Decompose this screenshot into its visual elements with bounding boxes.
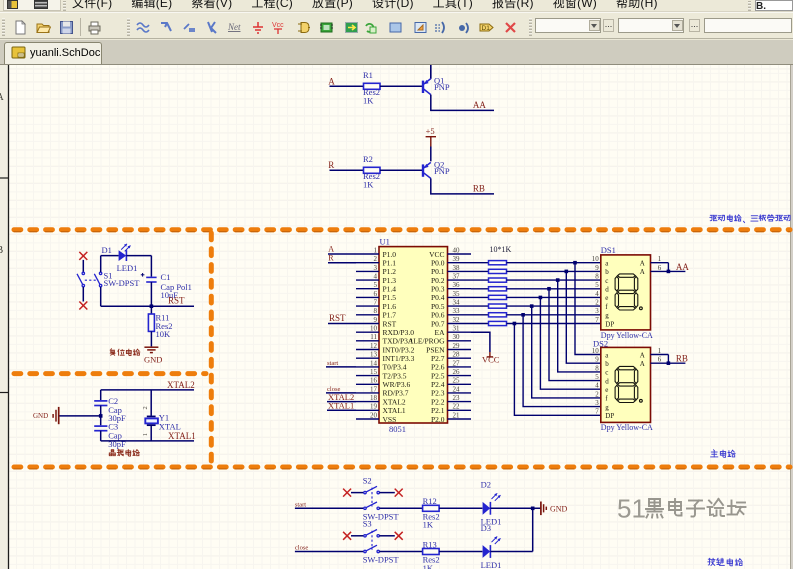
svg-text:1K: 1K	[423, 563, 434, 569]
LED D3	[483, 537, 501, 558]
svg-text:RST: RST	[168, 296, 185, 306]
svg-text:close: close	[295, 545, 308, 552]
svg-text:e: e	[605, 386, 608, 394]
toolbar icon: net label	[227, 20, 242, 35]
svg-text:P2.0: P2.0	[431, 415, 445, 424]
svg-text:1: 1	[658, 347, 662, 355]
svg-text:XTAL2: XTAL2	[167, 380, 195, 390]
svg-text:R1: R1	[363, 70, 373, 80]
wire resistor 2 to DS1 pin	[507, 270, 601, 272]
wire C1 to RST net	[150, 282, 152, 306]
no-ERC marker below S1	[79, 302, 87, 310]
svg-text:P1.5: P1.5	[383, 293, 397, 302]
wire segment line 4 down to DS2	[549, 289, 601, 381]
svg-text:1: 1	[658, 255, 662, 263]
wire down to C1	[150, 256, 152, 277]
svg-text:A: A	[328, 245, 334, 254]
pin 9 of U1 (RST)	[356, 316, 397, 328]
sheet border line	[8, 65, 10, 569]
pin 28 of U1 (P2.7)	[431, 351, 471, 363]
toolbar combo box 2	[618, 18, 684, 33]
transistor Q1 (PNP)	[423, 79, 431, 95]
pin 33 of U1 (P0.6)	[431, 307, 471, 319]
annotation text: main circuit	[711, 450, 718, 457]
no-ERC marker left of S3	[343, 532, 351, 540]
svg-text:17: 17	[370, 385, 378, 393]
svg-text:A: A	[640, 360, 645, 368]
svg-text:11: 11	[370, 333, 377, 341]
wire resistor 7 to DS1 pin	[507, 314, 601, 316]
svg-text:16: 16	[370, 377, 378, 385]
pin 13 of U1 (INT1/P3.3)	[356, 351, 415, 363]
wire C2 to C3	[100, 406, 102, 426]
svg-text:35: 35	[453, 290, 461, 298]
wire U1 P0.4 to network resistor	[471, 296, 489, 298]
crystal Y1	[145, 416, 158, 425]
svg-text:LED1: LED1	[117, 263, 138, 273]
svg-text:g: g	[605, 403, 609, 411]
pin 24 of U1 (P2.3)	[431, 385, 471, 397]
junction segment line 7	[521, 313, 525, 317]
wire XTAL2 to Y1 pin 2	[150, 390, 152, 416]
capacitor C2	[94, 401, 107, 406]
svg-text:RD/P3.7: RD/P3.7	[383, 389, 409, 398]
pin 16 of U1 (WR/P3.6)	[356, 377, 410, 389]
wire S2 to R12	[379, 507, 422, 509]
svg-text:P2.7: P2.7	[431, 354, 445, 363]
svg-text:6: 6	[658, 264, 662, 272]
wire resistor 4 to DS1 pin	[507, 288, 601, 290]
svg-text:34: 34	[453, 299, 461, 307]
pin 38 of U1 (P0.1)	[431, 264, 471, 276]
wire U1 P0.1 to network resistor	[471, 270, 489, 272]
svg-text:ALE/PROG: ALE/PROG	[408, 337, 445, 346]
svg-text:PNP: PNP	[434, 166, 450, 176]
pin 12 of U1 (INT0/P3.2)	[356, 342, 415, 354]
svg-text:19: 19	[370, 403, 378, 411]
svg-text:23: 23	[453, 394, 461, 402]
wire +5 to Q2 emitter	[430, 147, 432, 162]
svg-text:29: 29	[453, 342, 461, 350]
wire resistor 5 to DS1 pin	[507, 296, 601, 298]
toolbar icon: no-ERC cross	[503, 20, 518, 35]
svg-text:4: 4	[595, 290, 599, 298]
svg-text:DP: DP	[605, 320, 614, 328]
svg-text:A: A	[640, 351, 645, 359]
toolbar button ... 1	[603, 19, 614, 32]
svg-text:10: 10	[592, 347, 600, 355]
toolbar icon: sheet entry 2	[413, 20, 428, 35]
junction C2 / C3 / GND	[99, 414, 103, 418]
toolbar icon: open	[36, 20, 51, 35]
svg-text:D2: D2	[481, 480, 491, 490]
wire segment line 1 down to DS2	[575, 263, 601, 355]
wire net XTAL1 to pin 19	[327, 409, 356, 411]
svg-text:P2.3: P2.3	[431, 389, 445, 398]
pin 11 of U1 (TXD/P3.1)	[356, 333, 414, 345]
power port +5	[426, 137, 436, 147]
wire net XTAL2 to pin 18	[327, 401, 356, 403]
svg-text:1K: 1K	[423, 520, 434, 530]
DS1 digit graphic	[615, 274, 642, 310]
wire U1 P0.2 to network resistor	[471, 279, 489, 281]
svg-text:28: 28	[453, 351, 461, 359]
sheet zone tick 2	[0, 392, 9, 394]
svg-text:Dpy Yellow-CA: Dpy Yellow-CA	[601, 331, 653, 340]
toolbar text box 3	[704, 18, 792, 33]
junction segment line 1	[573, 261, 577, 265]
pin 27 of U1 (P2.6)	[431, 359, 471, 371]
svg-text:GND: GND	[550, 505, 568, 514]
pin 4 of U1 (P1.3)	[356, 273, 396, 285]
svg-text:20: 20	[370, 411, 378, 419]
svg-text:12: 12	[370, 342, 378, 350]
svg-text:9: 9	[595, 356, 599, 364]
wire net close to pin 17	[326, 392, 356, 394]
svg-text:A: A	[0, 92, 5, 103]
capacitor C1 (polarized)	[146, 277, 156, 282]
wire S1 pole2 top to LED branch	[100, 256, 102, 272]
svg-text:XTAL2: XTAL2	[383, 397, 406, 406]
svg-text:P2.6: P2.6	[431, 363, 445, 372]
svg-text:P0.0: P0.0	[431, 259, 445, 268]
junction segment line 2	[565, 270, 569, 274]
svg-text:T2/P3.5: T2/P3.5	[383, 371, 407, 380]
toolbar icon: vcc port	[271, 20, 286, 35]
toolbar icon: harness entry	[457, 20, 472, 35]
wire S1 pole1 bottom	[82, 287, 84, 302]
svg-text:3: 3	[595, 399, 599, 407]
wire DS2 common anode	[667, 355, 669, 364]
toolbar button ... 2	[689, 19, 700, 32]
region divider dashed line vertical	[209, 233, 214, 463]
op-amp style IC body: microcontroller U1 8051	[379, 247, 448, 423]
resistor network element 1	[489, 261, 507, 265]
svg-text:3: 3	[595, 307, 599, 315]
resistor network element 8	[489, 321, 507, 325]
svg-text:S3: S3	[363, 519, 372, 529]
svg-text:P2.5: P2.5	[431, 371, 445, 380]
svg-text:+5: +5	[426, 126, 435, 136]
pin 1 of U1 (P1.0)	[356, 246, 396, 258]
svg-text:XTAL1: XTAL1	[383, 406, 406, 415]
svg-text:C1: C1	[161, 272, 171, 282]
pin 17 of U1 (RD/P3.7)	[356, 385, 409, 397]
junction D2 / D3 gnd	[531, 507, 535, 511]
svg-text:3: 3	[374, 264, 378, 272]
svg-text:51: 51	[617, 494, 646, 524]
svg-text:XTAL1: XTAL1	[328, 401, 354, 411]
resistor network element 3	[489, 278, 507, 282]
svg-text:GND: GND	[33, 412, 48, 420]
junction DS1 anode	[667, 270, 671, 274]
svg-text:4: 4	[595, 382, 599, 390]
region divider dashed line top (drive / main)	[14, 227, 790, 232]
svg-text:b: b	[605, 268, 609, 276]
wire close net to S3	[295, 551, 364, 553]
svg-text:5: 5	[374, 281, 378, 289]
pin 5 of U1 (P1.4)	[356, 281, 396, 293]
svg-text:RST: RST	[383, 319, 397, 328]
svg-text:2: 2	[595, 299, 599, 307]
svg-text:24: 24	[453, 385, 461, 393]
no-ERC marker right of S2	[395, 489, 403, 497]
svg-text:7: 7	[595, 316, 599, 324]
pin 8 of U1 (P1.7)	[356, 307, 396, 319]
wire segment line 3 down to DS2	[558, 280, 601, 372]
wire GND to capacitor midpoint	[60, 415, 101, 417]
svg-text:1K: 1K	[363, 96, 374, 106]
resistor R2	[364, 167, 381, 173]
svg-text:9: 9	[595, 264, 599, 272]
svg-text:P1.0: P1.0	[383, 250, 397, 259]
junction RST / R11	[150, 304, 154, 308]
no-ERC marker above S1	[79, 252, 87, 260]
annotation text: drive circuit, transistor drive	[710, 215, 717, 220]
svg-text:RST: RST	[329, 313, 346, 323]
svg-text:XTAL: XTAL	[159, 421, 181, 431]
svg-text:R: R	[328, 160, 334, 170]
wire R2 to Q2 base	[380, 169, 422, 171]
wire net A to R1	[330, 85, 364, 87]
wire XTAL1 net	[101, 440, 194, 442]
svg-text:e: e	[605, 294, 608, 302]
pin 18 of U1 (XTAL2)	[356, 394, 406, 406]
svg-text:9: 9	[374, 316, 378, 324]
svg-text:37: 37	[453, 273, 461, 281]
svg-text:VSS: VSS	[383, 415, 397, 424]
svg-text:start: start	[295, 501, 306, 508]
wire junction to R11	[150, 306, 152, 314]
transistor Q2 (PNP)	[423, 162, 431, 178]
svg-text:A: A	[640, 260, 645, 268]
svg-text:P2.2: P2.2	[431, 397, 445, 406]
junction DS2 anode	[667, 361, 671, 365]
resistor R13	[423, 549, 440, 555]
wire resistor 6 to DS1 pin	[507, 305, 601, 307]
wire segment line 7 down to DS2	[523, 315, 601, 407]
pin 39 of U1 (P0.0)	[431, 255, 471, 267]
wire resistor 8 to DS1 pin	[507, 323, 601, 325]
svg-text:39: 39	[453, 255, 461, 263]
svg-text:d: d	[605, 286, 609, 294]
svg-text:Dpy Yellow-CA: Dpy Yellow-CA	[601, 423, 653, 432]
junction segment line 3	[556, 278, 560, 282]
svg-text:R2: R2	[363, 154, 373, 164]
svg-text:P0.4: P0.4	[431, 293, 445, 302]
wire R12 to D2	[439, 507, 482, 509]
region divider dashed line short (reset / crystal)	[14, 371, 206, 376]
svg-text:21: 21	[453, 411, 461, 419]
wire DS2 anode to net RB	[668, 362, 685, 364]
wire net R to R2	[330, 169, 364, 171]
ground symbol GND (reset)	[144, 347, 158, 352]
svg-text:30: 30	[453, 333, 461, 341]
toolbar icon: gnd port	[251, 20, 266, 35]
wire Y1 pin 1 to XTAL1 net	[150, 425, 152, 441]
switch S3 SW-DPST	[364, 530, 380, 553]
wire U1 P0.6 to network resistor	[471, 314, 489, 316]
svg-text:D1: D1	[102, 245, 112, 255]
wire S3 upper pole to X	[379, 535, 394, 537]
wire net A to pin 1	[328, 253, 356, 255]
toolbar icon: place wire	[136, 20, 151, 35]
pin 20 of U1 (VSS)	[356, 411, 396, 423]
wire net RST to pin 9	[328, 323, 356, 325]
svg-text:B: B	[0, 245, 4, 256]
wire XTAL2 net	[101, 389, 194, 391]
svg-text:A: A	[328, 76, 335, 86]
pin 34 of U1 (P0.5)	[431, 299, 471, 311]
svg-text:7: 7	[595, 408, 599, 416]
pin 31 of U1 (EA)	[435, 325, 472, 337]
wire to Q1 collector from top edge	[430, 65, 432, 79]
resistor network element 4	[489, 287, 507, 291]
sheet zone tick 1	[0, 177, 9, 179]
svg-text:XTAL1: XTAL1	[168, 431, 196, 441]
wire Q1 collector to net AA	[431, 95, 494, 111]
svg-text:4: 4	[374, 273, 378, 281]
pin 37 of U1 (P0.2)	[431, 273, 471, 285]
svg-text:U1: U1	[380, 237, 390, 247]
junction segment line 8	[513, 322, 517, 326]
toolbar icon: place line	[205, 20, 220, 35]
svg-text:c: c	[605, 277, 608, 285]
wire U1 P0.3 to network resistor	[471, 288, 489, 290]
wire net R to pin 2	[328, 262, 356, 264]
wire U1 P0.7 to network resistor	[471, 323, 489, 325]
svg-text:33: 33	[453, 307, 461, 315]
svg-text:7: 7	[374, 299, 378, 307]
svg-text:1K: 1K	[363, 180, 374, 190]
svg-text:8: 8	[374, 307, 378, 315]
svg-text:25: 25	[453, 377, 461, 385]
switch S1 SW-DPST	[77, 272, 102, 287]
pin 32 of U1 (P0.7)	[431, 316, 471, 328]
svg-text:start: start	[327, 360, 338, 367]
svg-text:8051: 8051	[389, 424, 406, 434]
wire resistor 1 to DS1 pin	[507, 262, 601, 264]
svg-text:31: 31	[453, 325, 461, 333]
svg-text:27: 27	[453, 359, 461, 367]
region divider dashed line bottom (main / keys)	[14, 465, 790, 470]
pin 22 of U1 (P2.1)	[431, 403, 471, 415]
svg-text:38: 38	[453, 264, 461, 272]
power port GND (crystal, left)	[53, 407, 59, 424]
svg-text:INT0/P3.2: INT0/P3.2	[383, 345, 415, 354]
7-segment display DS1 (Dpy Yellow-CA)	[601, 255, 651, 330]
resistor R12	[423, 505, 440, 511]
svg-text:AA: AA	[676, 262, 689, 272]
pin 29 of U1 (PSEN)	[426, 342, 471, 354]
svg-text:13: 13	[370, 351, 378, 359]
wire C3 to XTAL1 net	[100, 431, 102, 441]
wire DS1 common anode	[667, 263, 669, 272]
svg-text:c: c	[605, 369, 608, 377]
resistor network element 2	[489, 269, 507, 273]
toolbar icon: place IC	[319, 20, 334, 35]
svg-text:AA: AA	[473, 100, 486, 110]
wire X to S3 upper pole	[351, 535, 364, 537]
toolbar icon: place bus	[159, 20, 174, 35]
svg-text:P0.5: P0.5	[431, 302, 445, 311]
pin 21 of U1 (P2.0)	[431, 411, 471, 423]
svg-text:8: 8	[595, 364, 599, 372]
pin 40 of U1 (VCC)	[429, 246, 471, 258]
no-ERC marker right of S3	[395, 532, 403, 540]
junction segment line 4	[547, 287, 551, 291]
wire U1 P0.0 to network resistor	[471, 262, 489, 264]
wire XTAL2 to C2	[100, 390, 102, 400]
wire segment line 6 down to DS2	[532, 306, 601, 398]
svg-text:RB: RB	[473, 184, 485, 194]
pin 36 of U1 (P0.3)	[431, 281, 471, 293]
wire D2 to GND	[490, 507, 541, 509]
svg-text:6: 6	[658, 356, 662, 364]
svg-text:2: 2	[374, 255, 378, 263]
svg-text:40: 40	[453, 246, 461, 254]
resistor network element 6	[489, 304, 507, 308]
svg-text:26: 26	[453, 368, 461, 376]
annotation text: reset circuit	[110, 349, 115, 355]
junction segment line 5	[539, 296, 543, 300]
power port GND (keys)	[541, 502, 546, 516]
svg-text:6: 6	[374, 290, 378, 298]
wire S1 pole2 bottom to RST net	[100, 287, 102, 306]
svg-text:36: 36	[453, 281, 461, 289]
pin 30 of U1 (ALE/PROG)	[408, 333, 471, 345]
wire EA to VCC port	[471, 332, 490, 352]
svg-text:R: R	[328, 253, 334, 262]
wire segment line 5 down to DS2	[540, 297, 600, 389]
toolbar icon: save	[59, 20, 74, 35]
svg-text:SW-DPST: SW-DPST	[363, 555, 400, 565]
wire R13 to D3	[439, 551, 482, 553]
wire DS1 anode to net AA	[668, 270, 685, 272]
DS2 digit graphic	[615, 366, 642, 402]
svg-text:P2.1: P2.1	[431, 406, 445, 415]
svg-text:P1.6: P1.6	[383, 302, 397, 311]
wire Q2 collector to net RB	[431, 178, 494, 194]
pin 26 of U1 (P2.5)	[431, 368, 471, 380]
svg-text:18: 18	[370, 394, 378, 402]
resistor network element 5	[489, 295, 507, 299]
svg-text:b: b	[605, 360, 609, 368]
pin 15 of U1 (T2/P3.5)	[356, 368, 407, 380]
toolbar combo box 1	[535, 18, 601, 33]
svg-text:P0.7: P0.7	[431, 319, 445, 328]
wire X to S2 upper pole	[351, 492, 364, 494]
pin 2 of U1 (P1.1)	[356, 255, 396, 267]
svg-text:1: 1	[142, 433, 149, 436]
toolbar icon: print	[87, 20, 102, 35]
wire segment line 2 down to DS2	[566, 271, 601, 363]
switch S2 SW-DPST	[364, 486, 380, 509]
svg-text:T0/P3.4: T0/P3.4	[383, 363, 407, 372]
pin 23 of U1 (P2.2)	[431, 394, 471, 406]
svg-text:PNP: PNP	[434, 82, 450, 92]
svg-text:P1.7: P1.7	[383, 311, 397, 320]
toolbar icon: new document	[13, 20, 28, 35]
wire start net to S2	[295, 507, 364, 509]
wire R1 to Q1 base	[380, 85, 422, 87]
pin 7 of U1 (P1.6)	[356, 299, 396, 311]
resistor network element 7	[489, 313, 507, 317]
svg-text:S2: S2	[363, 475, 372, 485]
resistor R11	[148, 314, 154, 331]
svg-text:8: 8	[595, 273, 599, 281]
svg-text:INT1/P3.3: INT1/P3.3	[383, 354, 415, 363]
